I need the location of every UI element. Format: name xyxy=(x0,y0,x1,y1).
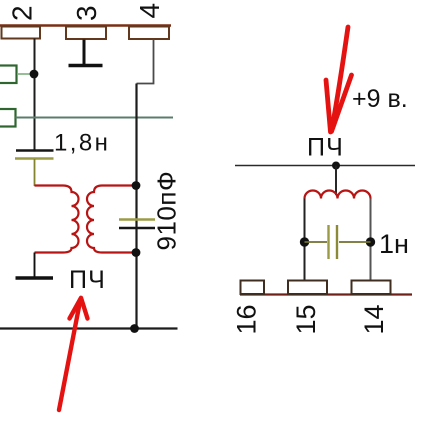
IC U2 pin 16 box (partial) xyxy=(241,281,265,295)
wire L1 right to pin 14 xyxy=(370,199,372,282)
node junction bottom xyxy=(130,324,139,333)
capacitor C3 right plate xyxy=(336,225,338,259)
capacitor C2 top plate (khaki) xyxy=(119,218,155,220)
node junction T1 top / bus xyxy=(132,181,141,190)
node junction T1 bottom / bus xyxy=(132,248,141,257)
bottom bus wire xyxy=(0,327,178,329)
svg-text:14: 14 xyxy=(359,304,389,334)
transformer T1 right winding xyxy=(87,186,137,253)
resistor R1 (cut at left edge) xyxy=(0,66,17,84)
svg-text:ПЧ: ПЧ xyxy=(307,134,344,162)
IC U1 pin 2 box xyxy=(2,27,41,39)
transformer T1 left winding xyxy=(35,186,79,253)
IC U1 pin 3 box xyxy=(66,27,106,40)
wire pin 4 jog xyxy=(137,40,154,84)
inductor L1 (red humps) xyxy=(305,191,371,199)
svg-text:910пФ: 910пФ xyxy=(152,171,182,251)
IC U1 pin 4 box xyxy=(129,27,169,40)
svg-text:3: 3 xyxy=(71,5,102,21)
IC U1 body edge (top left) xyxy=(0,24,171,27)
wire pin 2 down to C1 xyxy=(34,39,36,151)
wire main vertical bus xyxy=(135,84,137,329)
node junction C3 left xyxy=(300,237,309,246)
wire down to L1 xyxy=(335,166,337,196)
IC U2 body edge (bottom right) xyxy=(240,293,412,295)
node junction C3 right xyxy=(366,237,375,246)
resistor R2 (cut at left edge) xyxy=(0,109,16,127)
capacitor C1 top plate xyxy=(16,149,54,152)
svg-text:4: 4 xyxy=(134,3,165,19)
wire L1 left to pin 15 xyxy=(304,199,306,282)
svg-text:1н: 1н xyxy=(379,229,409,259)
IC U2 pin 14 box xyxy=(352,281,391,295)
capacitor C3 leads xyxy=(305,241,328,243)
svg-text:1,8н: 1,8н xyxy=(54,130,110,157)
node junction pin2/R1 xyxy=(30,70,39,79)
capacitor C1 bottom plate xyxy=(15,157,54,159)
ground symbol pin 3 xyxy=(83,40,86,65)
wire teal net from R2 xyxy=(16,117,174,119)
svg-text:2: 2 xyxy=(7,5,38,21)
svg-text:+9 в.: +9 в. xyxy=(352,85,408,113)
capacitor C3 left plate xyxy=(327,225,329,259)
capacitor C2 bottom plate xyxy=(119,227,155,230)
svg-text:ПЧ: ПЧ xyxy=(69,266,106,294)
wire R1 lead xyxy=(17,73,31,75)
red arrow 1 (points up to ПЧ) xyxy=(59,299,81,410)
svg-text:16: 16 xyxy=(232,304,262,334)
red arrow 2 (points down to ПЧ) xyxy=(332,27,349,131)
ground symbol T1 xyxy=(34,253,36,278)
IC U2 pin 15 box xyxy=(288,281,327,295)
wire C1 to T1 (khaki) xyxy=(34,159,36,186)
svg-text:15: 15 xyxy=(291,304,321,334)
node junction ПЧ xyxy=(332,162,340,170)
net line ПЧ (right) xyxy=(235,165,415,167)
